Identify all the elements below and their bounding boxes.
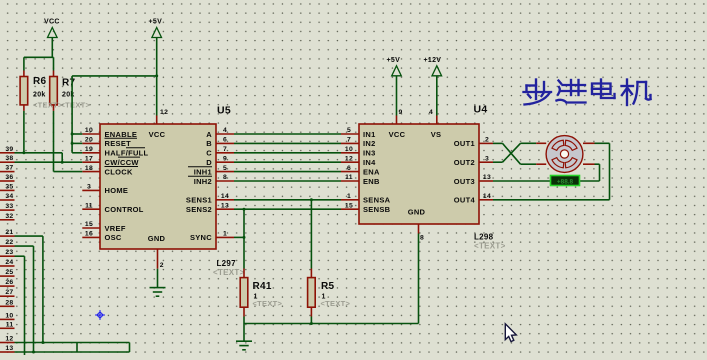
svg-text:36: 36 <box>5 174 13 181</box>
svg-text:SENS2: SENS2 <box>186 205 212 214</box>
svg-text:20: 20 <box>85 137 93 144</box>
svg-text:SYNC: SYNC <box>190 233 212 242</box>
svg-text:4: 4 <box>223 127 227 134</box>
svg-text:RESET: RESET <box>105 139 132 148</box>
svg-text:26: 26 <box>5 279 13 286</box>
svg-text:+88.8: +88.8 <box>557 178 574 185</box>
svg-text:<TEXT>: <TEXT> <box>33 101 63 110</box>
svg-text:3: 3 <box>87 184 91 191</box>
svg-text:+5V: +5V <box>149 19 163 26</box>
svg-text:8: 8 <box>420 235 424 242</box>
svg-text:CLOCK: CLOCK <box>105 167 133 176</box>
svg-text:CONTROL: CONTROL <box>105 205 144 214</box>
svg-text:7: 7 <box>347 137 351 144</box>
svg-text:C: C <box>206 149 212 158</box>
svg-text:VCC: VCC <box>149 130 166 139</box>
svg-text:25: 25 <box>5 269 13 276</box>
svg-text:B: B <box>206 139 212 148</box>
svg-text:7: 7 <box>223 146 227 153</box>
svg-text:3: 3 <box>485 155 489 162</box>
svg-text:22: 22 <box>5 239 13 246</box>
svg-text:IN3: IN3 <box>363 149 376 158</box>
svg-text:+5V: +5V <box>387 57 401 64</box>
svg-text:OSC: OSC <box>105 233 122 242</box>
svg-text:U4: U4 <box>474 104 488 116</box>
svg-text:VS: VS <box>431 130 442 139</box>
svg-text:R6: R6 <box>33 76 47 87</box>
svg-text:ENB: ENB <box>363 177 380 186</box>
svg-text:15: 15 <box>345 202 353 209</box>
svg-text:HALF/FULL: HALF/FULL <box>105 149 149 158</box>
svg-text:4: 4 <box>429 109 433 116</box>
svg-text:SENS1: SENS1 <box>186 196 212 205</box>
svg-text:R41: R41 <box>253 281 272 292</box>
svg-text:21: 21 <box>5 229 13 236</box>
svg-text:R5: R5 <box>321 281 335 292</box>
svg-text:ENA: ENA <box>363 167 380 176</box>
svg-text:SENSB: SENSB <box>363 205 391 214</box>
svg-text:14: 14 <box>221 193 229 200</box>
svg-text:2: 2 <box>160 262 164 269</box>
svg-text:VCC: VCC <box>44 19 60 26</box>
svg-text:R7: R7 <box>62 78 76 89</box>
svg-text:IN4: IN4 <box>363 158 376 167</box>
svg-text:<TEXT>: <TEXT> <box>213 268 245 277</box>
svg-text:IN1: IN1 <box>363 130 376 139</box>
svg-text:33: 33 <box>5 203 13 210</box>
svg-text:18: 18 <box>85 165 93 172</box>
svg-text:IN2: IN2 <box>363 139 376 148</box>
svg-text:6: 6 <box>223 137 227 144</box>
svg-text:<TEXT>: <TEXT> <box>321 299 351 308</box>
svg-text:<TEXT>: <TEXT> <box>474 241 506 250</box>
svg-text:13: 13 <box>5 345 13 352</box>
svg-text:INH1: INH1 <box>194 167 212 176</box>
svg-text:24: 24 <box>5 259 13 266</box>
svg-text:19: 19 <box>85 146 93 153</box>
svg-text:8: 8 <box>223 174 227 181</box>
svg-text:L298: L298 <box>474 233 494 242</box>
svg-text:34: 34 <box>5 193 13 200</box>
svg-text:12: 12 <box>160 109 168 116</box>
svg-text:16: 16 <box>85 231 93 238</box>
svg-text:OUT3: OUT3 <box>454 177 475 186</box>
svg-text:U5: U5 <box>217 105 231 117</box>
svg-text:1: 1 <box>347 193 351 200</box>
svg-text:23: 23 <box>5 249 13 256</box>
svg-text:10: 10 <box>85 127 93 134</box>
svg-text:32: 32 <box>5 213 13 220</box>
svg-text:HOME: HOME <box>105 186 129 195</box>
svg-text:9: 9 <box>399 109 403 116</box>
svg-text:L297: L297 <box>217 259 237 268</box>
svg-text:10: 10 <box>5 312 13 319</box>
svg-text:13: 13 <box>221 202 229 209</box>
svg-text:5: 5 <box>347 127 351 134</box>
svg-text:38: 38 <box>5 155 13 162</box>
svg-text:13: 13 <box>483 174 491 181</box>
svg-text:OUT4: OUT4 <box>454 196 476 205</box>
svg-text:A: A <box>206 130 212 139</box>
svg-text:17: 17 <box>85 155 93 162</box>
svg-text:39: 39 <box>5 146 13 153</box>
svg-text:11: 11 <box>345 174 353 181</box>
svg-text:11: 11 <box>85 202 93 209</box>
svg-text:10: 10 <box>345 146 353 153</box>
svg-text:+12V: +12V <box>424 57 442 64</box>
svg-text:37: 37 <box>5 165 13 172</box>
svg-text:28: 28 <box>5 299 13 306</box>
svg-text:20k: 20k <box>33 92 46 99</box>
svg-text:OUT1: OUT1 <box>454 139 475 148</box>
svg-text:11: 11 <box>6 321 14 328</box>
svg-text:1: 1 <box>223 231 227 238</box>
svg-text:VREF: VREF <box>105 224 126 233</box>
svg-text:VCC: VCC <box>389 130 406 139</box>
svg-text:2: 2 <box>485 137 489 144</box>
svg-text:6: 6 <box>347 165 351 172</box>
svg-text:12: 12 <box>345 155 353 162</box>
svg-text:GND: GND <box>148 234 166 243</box>
svg-text:<TEXT>: <TEXT> <box>61 101 91 110</box>
svg-text:27: 27 <box>5 289 13 296</box>
svg-text:5: 5 <box>223 165 227 172</box>
svg-text:ENABLE: ENABLE <box>105 130 138 139</box>
svg-text:9: 9 <box>223 155 227 162</box>
svg-text:D: D <box>206 158 212 167</box>
svg-text:<TEXT>: <TEXT> <box>253 299 283 308</box>
svg-text:INH2: INH2 <box>194 177 212 186</box>
svg-text:GND: GND <box>408 207 426 216</box>
svg-text:CW/CCW: CW/CCW <box>105 158 140 167</box>
svg-text:35: 35 <box>5 183 13 190</box>
svg-text:14: 14 <box>483 193 491 200</box>
svg-text:12: 12 <box>5 336 13 343</box>
svg-text:15: 15 <box>85 221 93 228</box>
svg-text:OUT2: OUT2 <box>454 158 475 167</box>
svg-text:SENSA: SENSA <box>363 196 391 205</box>
